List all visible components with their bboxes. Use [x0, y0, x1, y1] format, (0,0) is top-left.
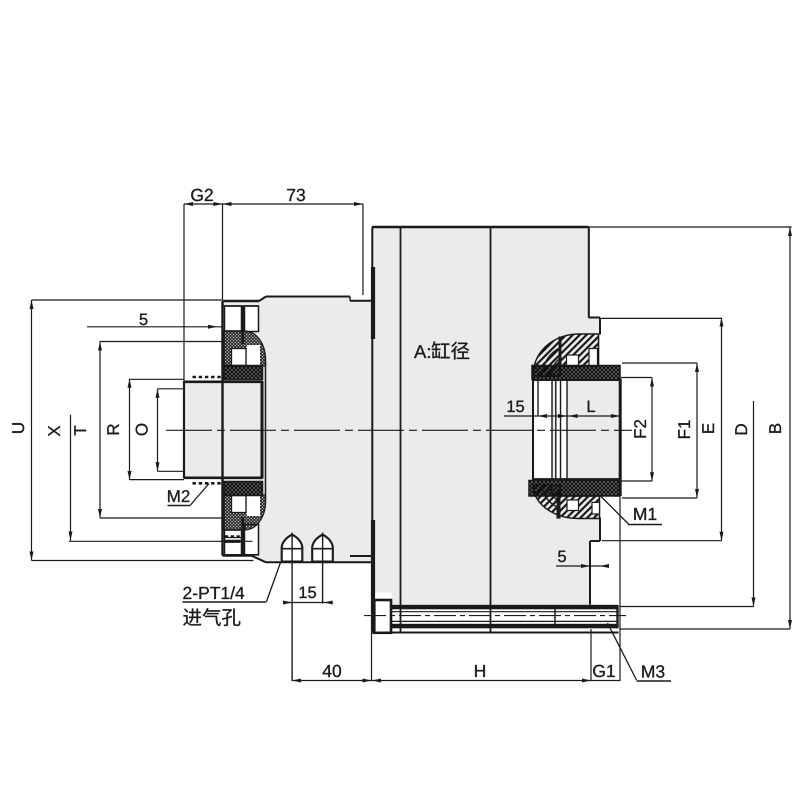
label G1	[593, 665, 615, 677]
label A bore dia	[414, 341, 469, 359]
body left edge	[371, 227, 373, 633]
flange pocket B upper	[245, 306, 259, 332]
dim G2 arrow left	[184, 202, 193, 206]
flange top chamfer	[259, 297, 266, 302]
label T	[74, 426, 86, 436]
dim D ext bottom	[620, 606, 754, 608]
right upper bearing band	[532, 366, 620, 380]
flange pocket B lower	[245, 525, 259, 555]
flange bottom chamfer	[251, 556, 266, 563]
dim 5 left line	[87, 326, 222, 328]
right lower bearing band	[529, 481, 619, 497]
flange bolt hole line	[225, 537, 242, 539]
leader M1	[600, 496, 629, 525]
flange pocket A upper	[225, 306, 242, 331]
leader M2	[191, 484, 210, 506]
air port dome 2	[312, 535, 333, 562]
label O	[136, 424, 148, 436]
tie rod bolt head	[374, 600, 391, 633]
tie rod shank bottom band	[391, 624, 617, 629]
dim 73 arrow right	[354, 202, 363, 206]
tie rod thread line top	[391, 611, 617, 613]
tie rod shank top band	[391, 605, 617, 610]
dim F1 ext top	[622, 362, 697, 364]
body left edge thick segment upper	[371, 267, 375, 339]
flange pocket A lower	[225, 530, 242, 555]
adapter ring top step	[349, 297, 351, 301]
label H	[475, 665, 485, 677]
body right step upper	[589, 317, 601, 319]
dim E ext bottom	[602, 540, 722, 542]
right upper seal lip arc 2	[552, 358, 561, 375]
right upper retainer bar	[559, 337, 562, 367]
body top edge	[372, 226, 589, 229]
label M1	[628, 508, 662, 525]
body top edge extension to B	[589, 226, 792, 228]
leader M3	[608, 623, 637, 680]
label 15 right	[508, 401, 524, 413]
dim B line	[788, 227, 792, 629]
adapter ring bottom edge	[266, 561, 372, 563]
left sleeve top edge	[184, 380, 263, 383]
right sleeve end face	[619, 379, 622, 497]
left upper retainer bar	[241, 306, 244, 344]
right bore gap white	[535, 381, 553, 480]
label 2-PT1/4	[183, 586, 267, 602]
body right edge upper	[588, 227, 590, 318]
bolt centerline	[364, 615, 626, 617]
label 5 br	[558, 551, 566, 563]
flange top edge	[223, 300, 260, 303]
right upper seal cartridge	[533, 334, 599, 376]
body right step lower	[590, 540, 600, 542]
air port centerline 1	[291, 533, 293, 682]
label U	[12, 423, 24, 433]
dim U ext bottom	[32, 560, 254, 562]
left lower bearing band	[224, 482, 263, 496]
dim F2 ext top	[621, 377, 652, 379]
dim F2 line	[650, 378, 654, 482]
body right edge lower	[589, 541, 591, 605]
right sleeve slot white 1	[556, 381, 560, 479]
left hub sleeve	[184, 382, 263, 478]
body divider line 2	[490, 227, 492, 633]
left flange and adapter ring	[223, 297, 373, 562]
dim F1 line	[695, 363, 699, 498]
dim R ext top	[130, 378, 185, 380]
dim 40 line	[292, 679, 371, 683]
flange bottom edge	[223, 554, 252, 557]
dim E ext top	[600, 317, 722, 319]
right lower seal cutout 1	[567, 500, 579, 511]
dim R line	[128, 379, 132, 480]
label M2	[168, 490, 191, 505]
right sleeve line pair2 b	[566, 381, 568, 480]
label F2	[634, 420, 646, 438]
label air inlet cjk	[183, 608, 240, 626]
dim G2 ext line right	[222, 204, 224, 300]
dim U line	[30, 300, 34, 561]
right lower retainer bar	[557, 496, 561, 519]
left lower seal white gap	[247, 496, 260, 516]
adapter ring top edge	[266, 296, 350, 298]
label F1	[678, 420, 690, 438]
label X	[48, 426, 60, 437]
dim X line	[69, 415, 73, 541]
right sleeve line pair1 b	[555, 381, 557, 480]
body left edge thick segment lower	[371, 520, 375, 633]
dim G2 arrow right	[214, 202, 223, 206]
right upper seal lip arc 1	[543, 348, 561, 375]
flange pocket top line	[224, 305, 259, 307]
right sleeve line pair2 a	[560, 381, 562, 480]
right sleeve inner line	[537, 381, 539, 416]
dim O ext top	[158, 388, 185, 390]
right upper seal cutout 1	[567, 355, 579, 367]
body divider line 1	[400, 227, 402, 633]
left lower seal cartridge	[224, 495, 266, 530]
right sleeve top edge	[532, 379, 620, 381]
right upper seal cutout 2	[589, 349, 598, 367]
right hub sleeve	[552, 381, 620, 480]
dim H line	[372, 679, 620, 683]
flange bolt hole thread dashes	[225, 535, 241, 537]
adapter ring bottom edge inner	[350, 555, 372, 557]
body right step edge lower	[599, 518, 601, 542]
label 15 bottom	[300, 587, 316, 599]
label 5 left	[140, 314, 148, 326]
bolt head counterbore notch	[375, 593, 392, 605]
right sleeve outer face left	[532, 380, 534, 479]
flange pocket bottom line	[224, 554, 259, 556]
dim H ext left	[371, 633, 373, 681]
right lower seal lip arc 1	[542, 486, 560, 509]
label G2	[191, 189, 213, 201]
left lower retainer bar	[241, 517, 244, 555]
tie rod end face	[616, 605, 618, 629]
right lower seal lip arc 2	[551, 486, 560, 503]
dim 5 br line	[556, 564, 609, 568]
flange left edge	[221, 301, 223, 556]
dim F2 ext bottom	[621, 480, 652, 482]
dim G2 ext line left	[183, 204, 185, 381]
dim X ext bottom	[69, 540, 253, 542]
air port dome 1	[282, 535, 303, 562]
dim G2 73 line	[184, 203, 363, 205]
right sleeve bottom edge	[532, 478, 620, 480]
left upper seal cartridge	[224, 331, 266, 366]
main centerline	[166, 429, 632, 431]
right sleeve slot white 2	[562, 381, 567, 479]
tie rod thread end line	[554, 605, 556, 628]
body right step edge upper	[599, 318, 601, 335]
dim O ext bottom	[158, 470, 185, 472]
dim 73 arrow left	[223, 202, 232, 206]
label L	[588, 401, 595, 412]
left sleeve left edge	[183, 381, 185, 479]
dim 5 left arrow	[208, 325, 217, 329]
dim T ext bottom	[100, 517, 222, 519]
label E	[702, 424, 714, 433]
dim F1 ext bottom	[622, 497, 697, 499]
left hub bore face	[265, 362, 267, 500]
body bottom plate line	[372, 632, 619, 634]
dim G1 ext left	[590, 629, 592, 681]
tie rod thread line bottom	[391, 620, 617, 622]
dim U ext top	[32, 299, 223, 301]
dim 15 L line	[504, 414, 620, 418]
right lower seal cartridge	[533, 485, 600, 519]
dim G1 ext right	[619, 496, 621, 681]
flange bolt hole bottom band	[224, 540, 241, 543]
left upper bearing band	[224, 366, 263, 380]
label 40	[323, 665, 341, 677]
dim O line	[156, 389, 160, 472]
right lower seal cutout 2	[592, 502, 600, 514]
dim R ext bottom	[130, 479, 185, 481]
left upper bearing ball cutout	[232, 349, 247, 366]
label M3	[637, 665, 672, 681]
label B	[769, 424, 781, 433]
dim E line	[720, 318, 724, 541]
dim B ext bottom	[620, 628, 790, 630]
left upper seal white gap	[247, 345, 260, 366]
cylinder body block	[372, 227, 600, 605]
left sleeve thread dashes top	[193, 376, 222, 379]
dim 15 bottom line	[283, 601, 333, 605]
air port centerline 2	[322, 533, 324, 604]
adapter ring top edge inner	[350, 300, 372, 302]
dim T line	[98, 342, 102, 519]
label R	[107, 424, 119, 434]
dim 73 ext line right	[362, 204, 364, 295]
right sleeve line pair1 a	[551, 381, 553, 480]
left lower bearing ball cutout	[232, 496, 247, 513]
dim T ext top	[100, 341, 222, 343]
left sleeve right edge	[261, 381, 264, 479]
left sleeve bottom edge	[184, 476, 263, 479]
leader 2-PT1/4	[267, 563, 281, 602]
label 73	[287, 189, 305, 201]
left sleeve thread dashes bottom	[193, 482, 222, 485]
dim D line	[752, 401, 756, 607]
label D	[735, 424, 747, 434]
